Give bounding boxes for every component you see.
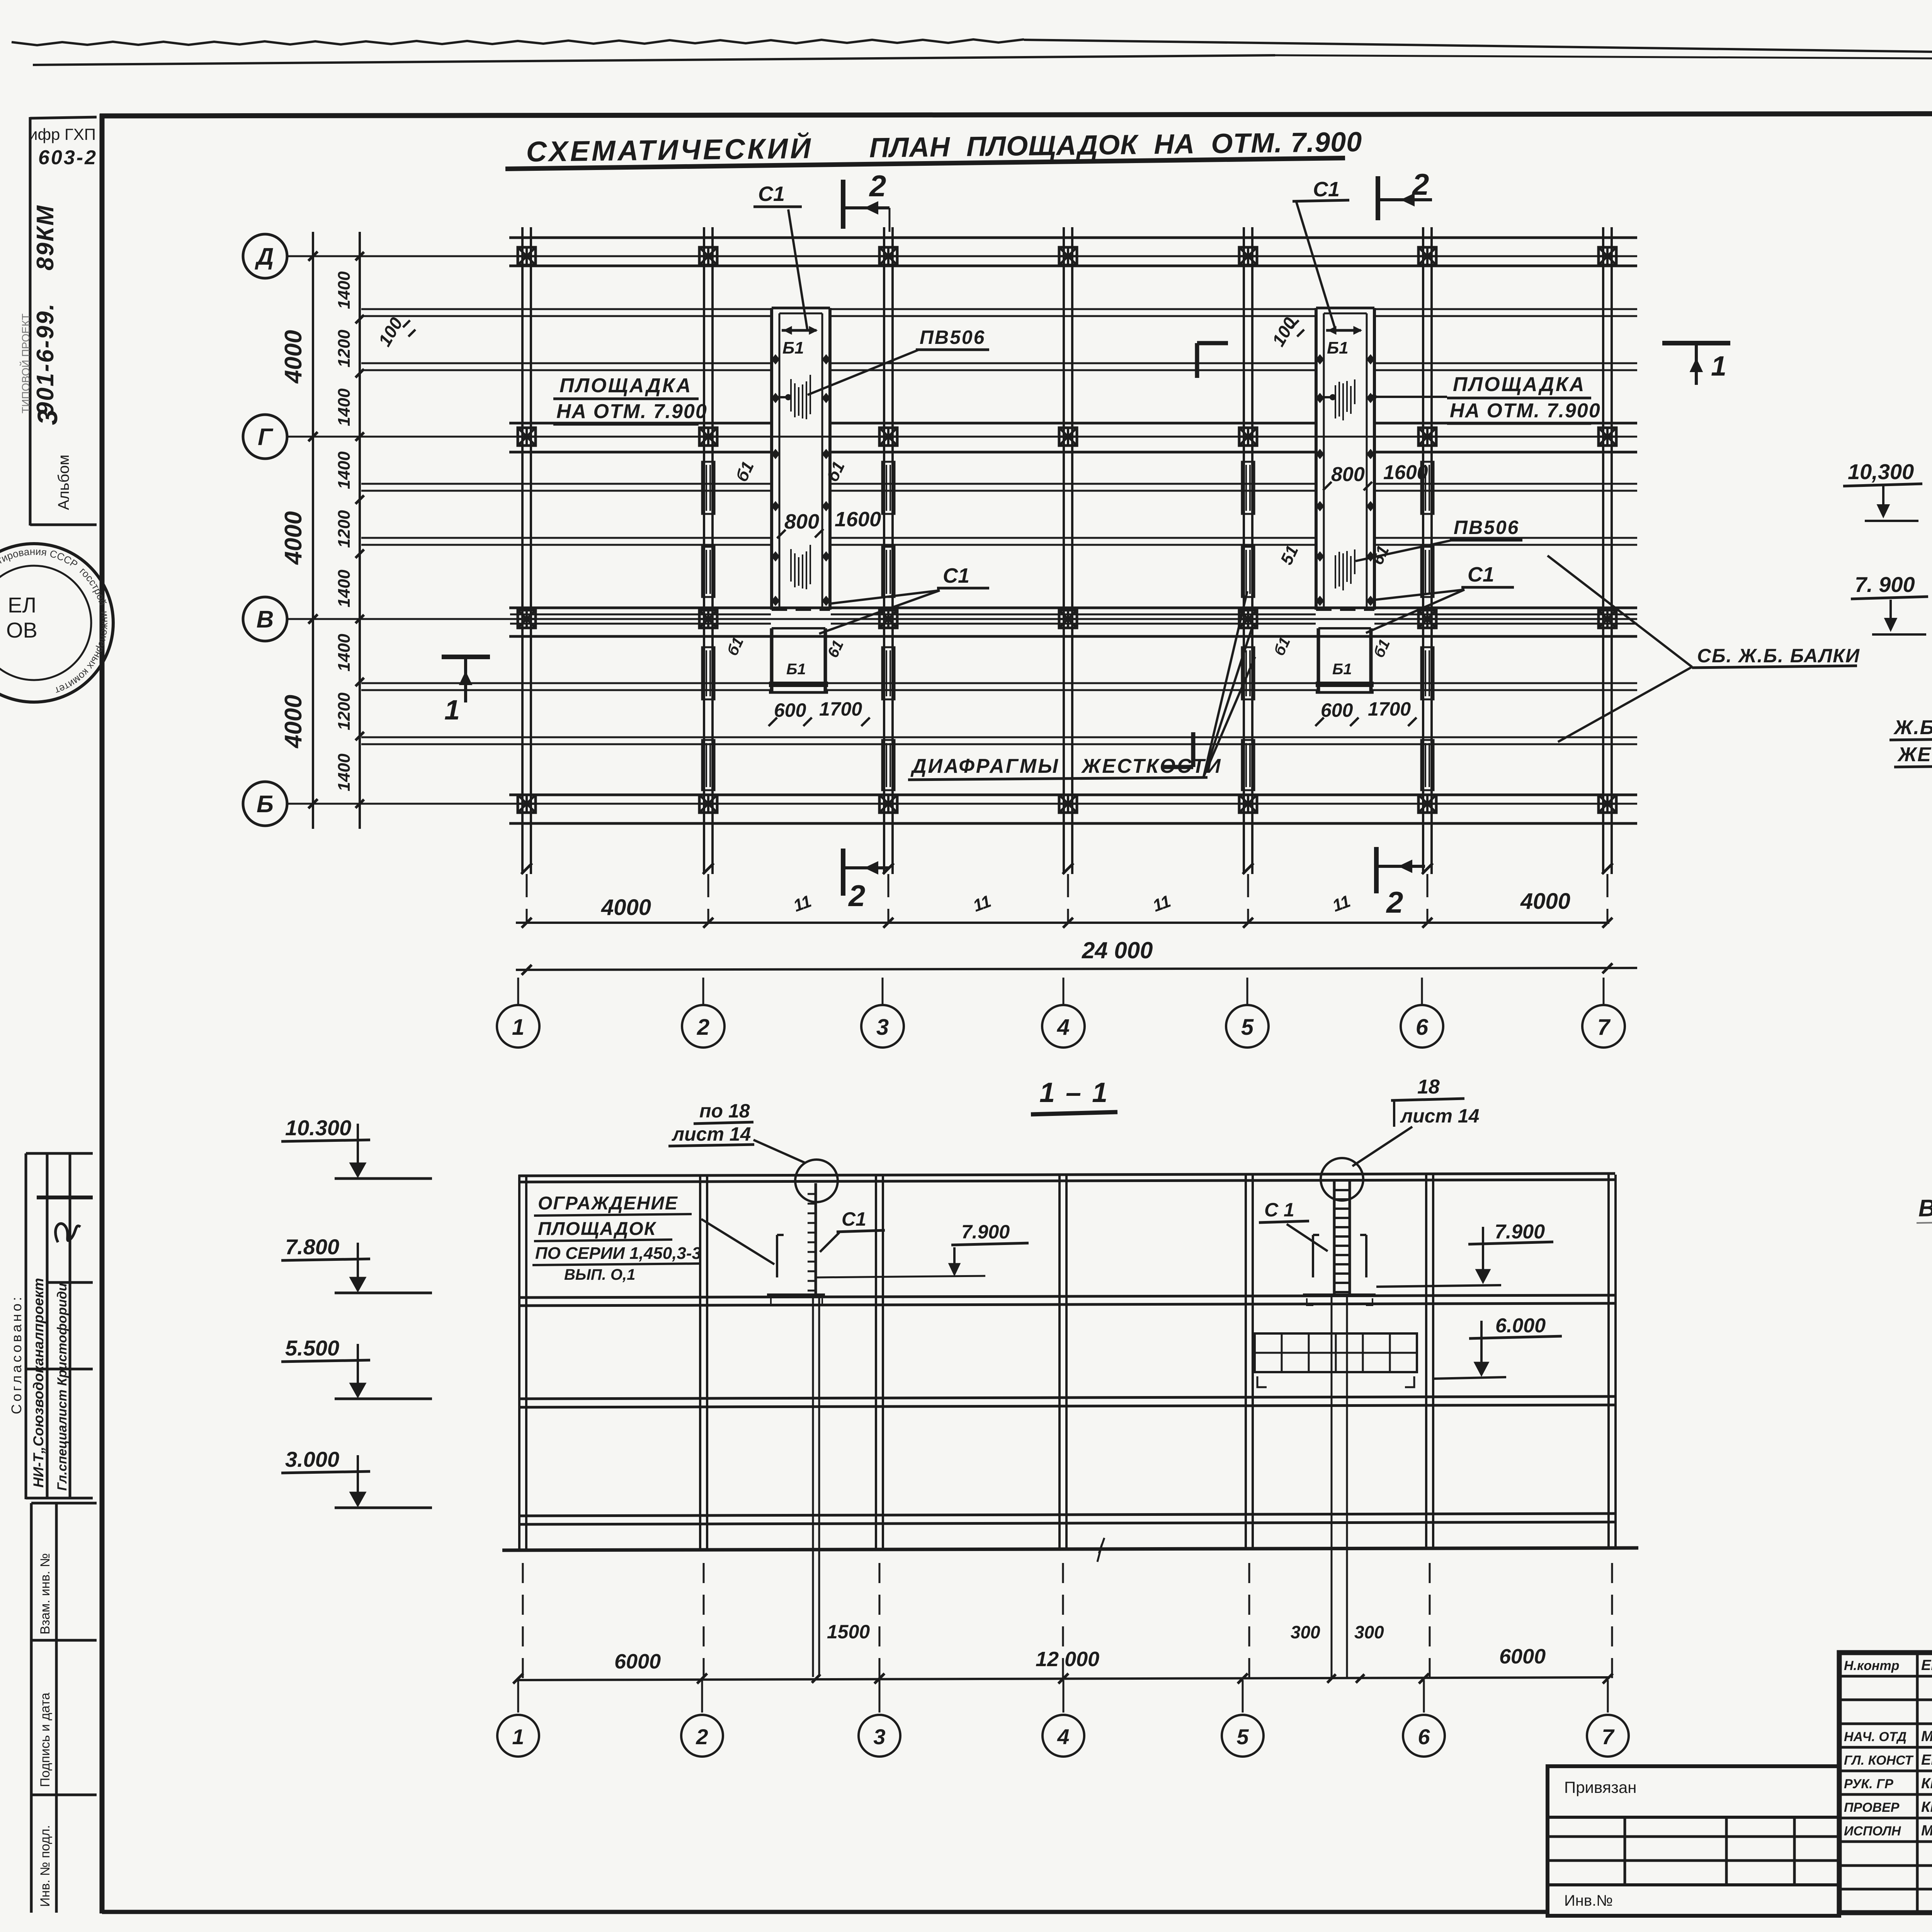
svg-text:2: 2 [869,169,886,203]
svg-text:МАЙОРОВА: МАЙОРОВА [1921,1821,1932,1839]
1-1 ograzhdenie leader [701,1219,774,1264]
svg-text:ПО СЕРИИ 1,450,3-3: ПО СЕРИИ 1,450,3-3 [535,1244,701,1263]
svg-text:С1: С1 [1468,563,1494,586]
svg-text:1400: 1400 [335,388,354,426]
svg-text:ОГРАЖДЕНИЕ: ОГРАЖДЕНИЕ [538,1193,678,1214]
1-1 left deck [767,1294,825,1297]
svg-text:1400: 1400 [335,451,354,489]
left shaft opening [770,308,773,610]
svg-text:4000: 4000 [601,895,651,920]
svg-text:Н.контр: Н.контр [1844,1658,1900,1673]
svg-text:7.800: 7.800 [285,1235,339,1259]
svg-text:1200: 1200 [335,510,354,548]
svg-text:10.300: 10.300 [285,1116,351,1140]
plan bottom dim line bays [516,922,1609,924]
svg-text:4: 4 [1057,1015,1070,1040]
1-1 bottom line [502,1548,1638,1550]
plan total dim 24000 [516,968,1637,970]
svg-text:2: 2 [1386,885,1403,919]
svg-text:2: 2 [696,1725,708,1749]
1-1 right ladder stringers below [1331,1295,1333,1677]
axis lines D G V B [287,255,1637,257]
svg-text:Взам. инв. №: Взам. инв. № [38,1553,53,1634]
svg-text:ВЫП. О,1: ВЫП. О,1 [564,1266,635,1283]
svg-text:НИ-Т„Союзводоканалпроект: НИ-Т„Союзводоканалпроект [31,1278,46,1488]
svg-text:ЕЛ: ЕЛ [8,593,36,617]
svg-text:РУК. ГР: РУК. ГР [1844,1777,1893,1791]
svg-text:1 – 1: 1 – 1 [1039,1077,1109,1108]
svg-text:2: 2 [697,1015,709,1040]
svg-text:лист 14: лист 14 [1400,1105,1479,1127]
svg-text:Б: Б [257,791,274,818]
connecting beam at axis V [510,614,771,616]
svg-text:4000: 4000 [280,511,307,565]
svg-text:3: 3 [32,410,63,425]
1-1 left ladder with circle [795,1160,838,1202]
page top rule line [33,55,1275,65]
svg-text:С1: С1 [842,1208,866,1230]
svg-text:ПЛОЩАДКА: ПЛОЩАДКА [560,374,692,397]
svg-text:600: 600 [774,699,806,721]
svg-text:ифр ГХП: ифр ГХП [29,125,96,143]
svg-text:ПВ506: ПВ506 [1454,517,1520,538]
svg-text:6000: 6000 [1499,1645,1546,1668]
svg-text:3: 3 [873,1725,885,1749]
svg-text:300: 300 [1291,1622,1320,1642]
svg-text:НА ОТМ. 7.900: НА ОТМ. 7.900 [556,400,707,423]
diaphragm panels on column lines [702,462,714,514]
1-1 bottom axis circles [517,1680,519,1713]
svg-text:800: 800 [784,510,819,533]
svg-text:89КМ: 89КМ [32,204,59,270]
svg-text:Альбом: Альбом [55,454,72,510]
svg-text:С1: С1 [943,564,969,587]
svg-text:300: 300 [1354,1622,1384,1642]
sidebar lower boxes [30,1503,33,1913]
svg-text:ДИАФРАГМЫ: ДИАФРАГМЫ [910,755,1060,777]
svg-text:3: 3 [876,1015,889,1040]
svg-text:по 18: по 18 [699,1100,750,1122]
svg-text:24 000: 24 000 [1082,937,1153,963]
1-1 left railing post [776,1235,778,1277]
svg-text:ЕРМАКОВ: ЕРМАКОВ [1921,1657,1932,1673]
1-1 columns [518,1175,520,1549]
svg-text:7: 7 [1602,1725,1615,1749]
axis circles [243,234,287,278]
svg-text:Инв. № подл.: Инв. № подл. [38,1825,53,1907]
svg-text:ОВ: ОВ [6,618,37,642]
svg-text:С 1: С 1 [1264,1199,1294,1221]
svg-text:ЕРМАКОВ: ЕРМАКОВ [1921,1752,1932,1768]
svg-text:Ж.Б. ДИАФРАГМА: Ж.Б. ДИАФРАГМА [1893,716,1932,739]
svg-text:1600: 1600 [835,508,881,531]
svg-text:4000: 4000 [280,330,307,384]
svg-text:лист 14: лист 14 [672,1123,751,1145]
svg-text:1200: 1200 [335,330,354,367]
svg-text:ЖЕСТКОСТИ: ЖЕСТКОСТИ [1897,743,1932,766]
svg-text:1400: 1400 [335,634,354,672]
svg-text:С1: С1 [758,182,785,206]
svg-text:НА ОТМ. 7.900: НА ОТМ. 7.900 [1450,400,1601,422]
svg-text:1400: 1400 [335,271,354,309]
svg-text:Б1: Б1 [782,338,804,357]
svg-text:ПВ506: ПВ506 [920,327,986,348]
plan bottom axis circles 1-7 [517,978,519,1005]
svg-text:ПЛОЩАДОК: ПЛОЩАДОК [538,1219,657,1239]
title block outer frame [1839,1653,1932,1913]
section flag 2 top-left [841,180,845,229]
svg-text:Подпись и дата: Подпись и дата [38,1692,53,1787]
svg-text:1200: 1200 [335,692,354,730]
svg-text:12 000: 12 000 [1036,1648,1099,1671]
svg-text:5: 5 [1236,1725,1249,1749]
svg-text:5: 5 [1241,1015,1254,1040]
svg-text:600: 600 [1321,699,1353,721]
svg-text:901-6-99.: 901-6-99. [32,303,59,415]
svg-text:ПЛОЩАДКА: ПЛОЩАДКА [1453,373,1586,396]
svg-text:1600: 1600 [1383,461,1428,484]
privyazan box [1548,1766,1839,1916]
svg-text:Б1: Б1 [1332,661,1352,678]
svg-text:3.000: 3.000 [285,1447,339,1471]
right shaft B1 top label [1326,329,1361,332]
right shaft opening [1315,308,1318,610]
svg-text:Б1: Б1 [786,661,806,678]
svg-text:1400: 1400 [335,570,354,607]
title block signature table [1916,1653,1919,1913]
round stamp [0,544,113,702]
1-1 main dim line [518,1677,1609,1680]
section flag 2 bottom-right [1374,847,1379,893]
leader ploshchadka right [1376,396,1447,398]
plan grid columns [521,227,524,874]
svg-text:НАЧ. ОТД: НАЧ. ОТД [1844,1730,1906,1744]
svg-text:6.000: 6.000 [1495,1315,1546,1337]
svg-text:ПРОВЕР: ПРОВЕР [1844,1800,1900,1815]
section 1-1 cut corner bottom [1162,765,1193,769]
1-1 right deck [1303,1294,1376,1297]
svg-text:КРЫЛОВА: КРЫЛОВА [1921,1776,1932,1792]
svg-text:Гл.специалист Кристофориди: Гл.специалист Кристофориди [55,1283,70,1491]
svg-text:КРЫЛОВА: КРЫЛОВА [1921,1799,1932,1815]
svg-text:6: 6 [1418,1725,1430,1749]
svg-text:МИРОШНИК: МИРОШНИК [1921,1728,1932,1745]
svg-text:В: В [257,606,274,633]
1-1 left ladder stringers below [812,1295,814,1677]
svg-text:5.500: 5.500 [285,1336,339,1360]
1-1 dashed column projections [522,1563,524,1679]
svg-text:1700: 1700 [1368,698,1411,720]
section flag 1 right [1662,341,1730,345]
svg-text:Согласовано:: Согласовано: [9,1294,24,1414]
1-1 right railing posts [1312,1235,1314,1277]
svg-text:1: 1 [1711,351,1726,382]
section flag 1 left [442,655,490,659]
1-1 grating platform at 6.000 [1255,1333,1417,1372]
1-1 break mark [1097,1538,1104,1562]
svg-text:Б1: Б1 [1327,338,1349,357]
svg-text:1400: 1400 [335,753,354,791]
svg-text:1700: 1700 [819,698,862,720]
svg-text:7. 900: 7. 900 [1855,572,1915,597]
svg-text:1500: 1500 [827,1621,870,1643]
svg-text:1: 1 [444,695,460,726]
beam bands along axes [509,236,1637,239]
svg-text:7.900: 7.900 [961,1221,1010,1243]
svg-text:СБ. Ж.Б. БАЛКИ: СБ. Ж.Б. БАЛКИ [1697,645,1860,667]
svg-text:603-2: 603-2 [38,146,97,169]
soglasovano table [26,1152,93,1155]
section flag 2 bottom-left [841,849,845,896]
svg-text:Г: Г [258,424,274,451]
svg-text:6: 6 [1416,1015,1429,1040]
1-1 right ladder with circle [1321,1158,1363,1201]
svg-text:6000: 6000 [614,1650,661,1673]
column symbols [518,247,536,265]
svg-text:1: 1 [512,1015,524,1040]
svg-text:ТИПОВОЙ ПРОЕКТ: ТИПОВОЙ ПРОЕКТ [20,313,32,413]
soglasovano signature [56,1224,80,1242]
left shaft B1 top label [782,329,816,332]
svg-text:2: 2 [848,879,865,913]
svg-text:Инв.№: Инв.№ [1564,1892,1613,1909]
svg-text:ГЛ. КОНСТ: ГЛ. КОНСТ [1844,1753,1914,1768]
left dimension chain lines [312,232,314,829]
section flag 2 top-right [1376,176,1380,220]
svg-text:2: 2 [1412,167,1429,201]
page top torn edge [12,39,1024,45]
svg-text:ЖЕСТКОСТИ: ЖЕСТКОСТИ [1081,755,1222,777]
svg-text:Д: Д [255,243,274,270]
section 1-1 cut corner top [1197,341,1228,345]
sidebar top box [29,117,32,526]
1-1 frame top chord [519,1173,1615,1176]
svg-text:4: 4 [1057,1725,1069,1749]
svg-text:4000: 4000 [280,695,307,749]
svg-text:ИСПОЛН: ИСПОЛН [1844,1824,1901,1838]
left lower box [770,628,774,691]
right lower box [1317,628,1320,691]
svg-text:Привязан: Привязан [1564,1778,1636,1796]
svg-text:4000: 4000 [1520,889,1570,914]
svg-text:1: 1 [512,1725,524,1749]
1-1 beams at levels [519,1295,1615,1298]
svg-text:7: 7 [1597,1015,1611,1040]
drawing frame [100,113,1932,116]
svg-text:С1: С1 [1313,178,1340,201]
svg-text:18: 18 [1417,1076,1440,1098]
svg-text:10,300: 10,300 [1848,459,1914,484]
svg-text:7.900: 7.900 [1495,1221,1545,1243]
svg-text:800: 800 [1331,463,1365,486]
svg-text:СХЕМАТИЧЕСКИЙ: СХЕМАТИЧЕСКИЙ [526,132,813,168]
1-1 grating supports [1257,1376,1267,1387]
secondary beams [361,308,772,310]
